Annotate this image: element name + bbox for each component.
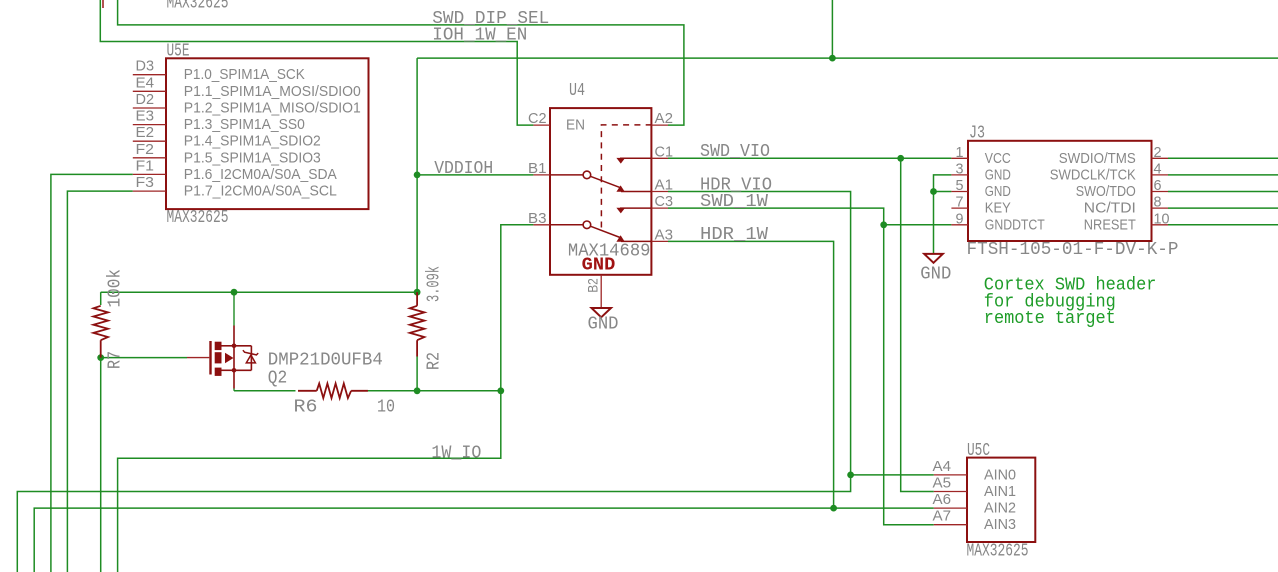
svg-text:GNDDTCT: GNDDTCT	[985, 216, 1045, 233]
component fragment above sheet (left edge of off-sheet symbol)	[102, 0, 104, 8]
svg-text:R7: R7	[106, 351, 126, 369]
U5C pin A6 AIN2	[934, 507, 967, 509]
wire HDR_1W left run to bottom edge	[34, 508, 934, 572]
svg-text:A7: A7	[933, 508, 952, 525]
J3 pin 2 SWDIO/TMS	[1152, 157, 1169, 159]
svg-text:AIN3: AIN3	[984, 516, 1016, 533]
svg-text:HDR_1W: HDR_1W	[700, 224, 769, 245]
svg-text:AIN1: AIN1	[984, 483, 1016, 500]
U4 switch pole B1	[583, 171, 591, 179]
svg-text:P1.2_SPIM1A_MISO/SDIO1: P1.2_SPIM1A_MISO/SDIO1	[184, 100, 361, 117]
U4 switch pole B3	[583, 221, 591, 229]
U5C pin A7 AIN3	[934, 524, 967, 526]
junction R7 / gate	[97, 354, 104, 361]
resistor R7 100k	[93, 269, 125, 369]
U4 pin B2	[600, 275, 602, 308]
analog switch U4 MAX14689	[528, 81, 673, 308]
wire J3 pin4 to right edge	[1168, 174, 1278, 176]
svg-text:J3: J3	[969, 124, 985, 144]
connector J3 FTSH-105-01-F-DV-K-P Cortex SWD header	[951, 124, 1178, 260]
junction J3 gnd	[930, 188, 937, 195]
svg-text:C2: C2	[528, 110, 547, 127]
svg-text:remote target: remote target	[984, 308, 1116, 329]
J3 pin 4 SWDCLK/TCK	[1152, 174, 1169, 176]
junction SWD_1W / pin9	[880, 221, 887, 228]
wire J3 pin3/pin5 to GND	[934, 175, 952, 254]
svg-text:IOH_1W_EN: IOH_1W_EN	[432, 25, 527, 46]
svg-text:NRESET: NRESET	[1084, 216, 1136, 233]
svg-text:D3: D3	[136, 58, 155, 75]
svg-text:Q2: Q2	[268, 368, 288, 389]
svg-text:MAX32625: MAX32625	[167, 0, 229, 14]
U4 pin A3	[651, 240, 668, 242]
wire net SWD_1W (U4 C3 to J3 pin9 and U5C AIN3)	[668, 208, 934, 525]
wire net IOH_1W_EN (from top edge to U4 C2)	[100, 0, 533, 125]
svg-text:P1.0_SPIM1A_SCK: P1.0_SPIM1A_SCK	[184, 66, 305, 83]
svg-text:SWO/TDO: SWO/TDO	[1076, 183, 1136, 200]
svg-text:A3: A3	[655, 226, 674, 243]
svg-text:1W_IO: 1W_IO	[431, 442, 481, 463]
wire R2 bottom link	[416, 357, 418, 391]
svg-text:VDDIOH: VDDIOH	[434, 158, 493, 179]
junction rail / Q2 drain	[231, 289, 238, 296]
wire net VDDIOH horizontal to right edge	[417, 57, 1278, 59]
Q2 body diode	[250, 346, 252, 371]
J3 pin 7 KEY	[951, 207, 968, 209]
svg-text:MAX32625: MAX32625	[167, 208, 229, 228]
svg-text:4: 4	[1154, 160, 1162, 177]
wire J3 pin10 to right edge	[1168, 224, 1278, 226]
U4 pin B3	[533, 224, 550, 226]
svg-text:NC/TDI: NC/TDI	[1084, 200, 1136, 217]
svg-text:10: 10	[1154, 210, 1170, 227]
wire R7 bottom to bottom edge	[100, 358, 102, 572]
U5E pin F2 P1.5_SPIM1A_SDIO3	[133, 157, 166, 159]
U5C pin A4 AIN0	[934, 474, 967, 476]
wire VDDIOH to U4 B1	[417, 174, 533, 176]
junction HDR_VIO / AIN0	[847, 472, 854, 479]
ground symbol GND below U4 B2	[588, 308, 619, 335]
svg-text:KEY: KEY	[985, 200, 1011, 217]
svg-text:EN: EN	[566, 117, 585, 134]
wire VDDIOH branch to top edge	[831, 0, 833, 58]
comment: Cortex SWD header for debugging remote target	[984, 275, 1157, 330]
svg-text:B1: B1	[528, 160, 547, 177]
svg-text:F3: F3	[136, 174, 155, 191]
wire J3 pin8 to right edge	[1168, 207, 1278, 209]
resistor R6 10	[294, 384, 396, 418]
junction rail / R2 top	[414, 289, 421, 296]
wire U5E F1 to left vertical	[51, 174, 133, 572]
U5C pin A5 AIN1	[934, 491, 967, 493]
J3 pin 3 GND	[951, 174, 968, 176]
wire net HDR_VIO (U4 A1 down to U5C AIN0)	[668, 192, 934, 475]
svg-text:P1.4_SPIM1A_SDIO2: P1.4_SPIM1A_SDIO2	[184, 133, 321, 150]
junction R6 / R2 bottom	[414, 387, 421, 394]
wire gate net	[101, 357, 187, 359]
U4 throw contact C1	[616, 158, 625, 164]
wire J3 pin6 to right edge	[1168, 191, 1278, 193]
svg-text:8: 8	[1154, 194, 1162, 211]
J3 pin 8 NC/TDI	[1152, 207, 1169, 209]
U4 throw contact A1	[616, 185, 624, 191]
svg-text:9: 9	[956, 210, 964, 227]
svg-text:100k: 100k	[106, 269, 126, 308]
J3 pin 1 VCC	[951, 157, 968, 159]
wire VDDIOH vertical trunk	[416, 58, 418, 292]
svg-text:P1.7_I2CM0A/S0A_SCL: P1.7_I2CM0A/S0A_SCL	[184, 183, 337, 200]
U5E pin F1 P1.6_I2CM0A/S0A_SDA	[133, 173, 166, 175]
svg-text:A1: A1	[655, 177, 674, 194]
svg-text:B3: B3	[528, 210, 547, 227]
svg-text:SWDIO/TMS: SWDIO/TMS	[1059, 150, 1136, 167]
svg-text:3.09k: 3.09k	[425, 266, 445, 302]
svg-text:GND: GND	[588, 314, 619, 335]
U4 pin A1	[651, 191, 668, 193]
svg-text:10: 10	[377, 397, 395, 418]
svg-text:P1.6_I2CM0A/S0A_SDA: P1.6_I2CM0A/S0A_SDA	[184, 166, 337, 183]
wire net HDR_1W (U4 A3 down to U5C AIN2)	[668, 241, 834, 508]
J3 pin 9 GNDDTCT	[951, 224, 968, 226]
svg-text:SWD_VIO: SWD_VIO	[700, 141, 770, 162]
svg-text:C1: C1	[655, 143, 674, 160]
J3 pin 5 GND	[951, 191, 968, 193]
wire SWD_1W to J3 pin 9	[884, 224, 952, 226]
U4 pin B1	[533, 174, 550, 176]
ground symbol GND below J3 pins 3/5	[920, 254, 951, 285]
wire R7 top lead	[100, 292, 102, 305]
svg-text:D2: D2	[136, 91, 155, 108]
wire SWD_VIO down to U5C AIN1	[901, 158, 934, 491]
transistor Q2 DMP21D0UFB4 P-MOSFET	[187, 292, 383, 391]
svg-text:2: 2	[1154, 144, 1162, 161]
junction R6 / 1W_IO	[497, 387, 504, 394]
wire U5E F3 to left vertical	[67, 191, 132, 572]
svg-text:GND: GND	[920, 264, 951, 285]
junction SWD_VIO branch	[897, 155, 904, 162]
IC U5E MAX32625 port P1	[133, 42, 369, 229]
svg-text:R2: R2	[425, 352, 445, 370]
U5E pin E3 P1.3_SPIM1A_SS0	[133, 124, 166, 126]
U4 pin C2	[533, 124, 550, 126]
svg-text:GND: GND	[582, 255, 616, 276]
U5E pin E2 P1.4_SPIM1A_SDIO2	[133, 140, 166, 142]
svg-text:SWDCLK/TCK: SWDCLK/TCK	[1050, 166, 1136, 183]
U4 pin A2	[651, 124, 668, 126]
svg-text:1: 1	[956, 144, 964, 161]
svg-text:U4: U4	[569, 81, 585, 101]
svg-text:E2: E2	[136, 124, 155, 141]
svg-text:AIN2: AIN2	[984, 500, 1016, 517]
wire net SWD_VIO (U4 C1 to J3 pin1)	[668, 157, 951, 159]
U5E pin E4 P1.1_SPIM1A_MOSI/SDIO0	[133, 90, 166, 92]
svg-text:A6: A6	[933, 491, 952, 508]
svg-text:R6: R6	[294, 397, 318, 418]
wire HDR_VIO extension to bottom left	[17, 475, 850, 572]
U5E pin D2 P1.2_SPIM1A_MISO/SDIO1	[133, 107, 166, 109]
wire net 1W_IO (U4 B3 down-left to bottom edge)	[118, 225, 534, 572]
J3 pin 10 NRESET	[1152, 224, 1169, 226]
svg-text:B2: B2	[585, 278, 601, 293]
J3 pin 6 SWO/TDO	[1152, 191, 1169, 193]
svg-text:A4: A4	[933, 458, 952, 475]
svg-text:U5E: U5E	[167, 42, 190, 62]
wire R6 rail (Q2 source to 1W_IO)	[234, 390, 296, 392]
U4 pin C3	[651, 207, 668, 209]
wire R7/R2 top rail VDDIOH	[101, 291, 417, 293]
svg-text:U5C: U5C	[967, 441, 990, 461]
svg-text:AIN0: AIN0	[984, 466, 1016, 483]
wire J3 pin2 to right edge	[1168, 157, 1278, 159]
svg-text:GND: GND	[985, 183, 1011, 200]
junction HDR_1W / AIN2	[830, 505, 837, 512]
svg-text:FTSH-105-01-F-DV-K-P: FTSH-105-01-F-DV-K-P	[967, 239, 1179, 260]
svg-text:A2: A2	[655, 110, 674, 127]
svg-text:MAX32625: MAX32625	[967, 542, 1029, 562]
U5E pin D3 P1.0_SPIM1A_SCK	[133, 74, 166, 76]
svg-text:E4: E4	[136, 74, 155, 91]
svg-text:P1.1_SPIM1A_MOSI/SDIO0: P1.1_SPIM1A_MOSI/SDIO0	[184, 83, 361, 100]
svg-text:P1.3_SPIM1A_SS0: P1.3_SPIM1A_SS0	[184, 116, 305, 133]
U4 pin C1	[651, 157, 668, 159]
svg-text:7: 7	[956, 194, 964, 211]
svg-text:F1: F1	[136, 157, 155, 174]
svg-text:3: 3	[956, 160, 964, 177]
wire J3 pin5 stub link	[934, 191, 952, 193]
resistor R2 3.09k	[410, 266, 445, 370]
svg-text:A5: A5	[933, 475, 952, 492]
svg-text:6: 6	[1154, 177, 1162, 194]
junction VDDIOH / B1	[414, 172, 421, 179]
svg-text:C3: C3	[655, 193, 674, 210]
svg-text:VCC: VCC	[985, 150, 1011, 167]
wire net SWD_DIP_SEL (from top edge to U4 A2)	[118, 0, 684, 125]
svg-text:E3: E3	[136, 108, 155, 125]
junction VDDIOH top branch	[829, 55, 836, 62]
U4 dashed control outline	[601, 125, 651, 228]
U5E pin F3 P1.7_I2CM0A/S0A_SCL	[133, 190, 166, 192]
IC U5C MAX32625 analog inputs	[933, 441, 1036, 562]
svg-text:F2: F2	[136, 141, 155, 158]
U4 throw contact C3	[616, 208, 625, 214]
U4 throw contact A3	[616, 235, 624, 241]
svg-text:P1.5_SPIM1A_SDIO3: P1.5_SPIM1A_SDIO3	[184, 149, 321, 166]
svg-text:5: 5	[956, 177, 964, 194]
svg-text:SWD_1W: SWD_1W	[700, 191, 769, 212]
svg-text:GND: GND	[985, 166, 1011, 183]
